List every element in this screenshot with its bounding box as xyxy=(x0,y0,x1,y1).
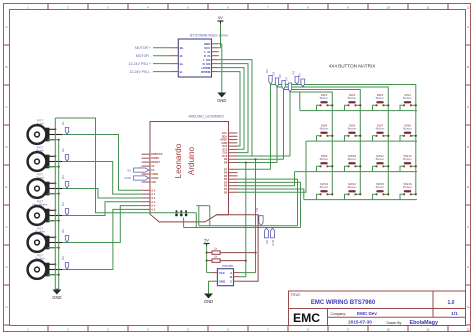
svg-text:H: H xyxy=(467,305,469,309)
svg-text:5V: 5V xyxy=(151,168,154,172)
svg-text:MOTOR -: MOTOR - xyxy=(136,54,152,58)
svg-text:Button: Button xyxy=(348,157,357,161)
svg-text:R2: R2 xyxy=(61,148,65,152)
svg-text:H: H xyxy=(5,305,7,309)
svg-text:Button: Button xyxy=(348,127,357,131)
svg-text:Drawn By:: Drawn By: xyxy=(387,321,403,325)
svg-text:EbolaMagy: EbolaMagy xyxy=(410,320,438,326)
svg-text:F: F xyxy=(467,225,469,229)
svg-text:1k: 1k xyxy=(214,254,218,258)
svg-text:12-24V PSU -: 12-24V PSU - xyxy=(129,70,151,74)
svg-text:ARDUINO_LEONARDO: ARDUINO_LEONARDO xyxy=(188,114,224,118)
svg-text:Company:: Company: xyxy=(331,312,347,316)
svg-text:RPWM: RPWM xyxy=(201,70,211,74)
svg-text:Button: Button xyxy=(376,185,385,189)
svg-text:4X4 BUTTON MATRIX: 4X4 BUTTON MATRIX xyxy=(329,64,376,69)
svg-text:12: 12 xyxy=(466,5,470,9)
svg-text:VCC: VCC xyxy=(219,271,226,275)
svg-text:R1: R1 xyxy=(292,70,296,74)
svg-text:M+: M+ xyxy=(180,46,184,50)
svg-text:GND: GND xyxy=(204,299,213,304)
svg-text:A.0: A.0 xyxy=(151,188,156,192)
svg-text:11: 11 xyxy=(426,5,429,9)
svg-text:BTS7960B Motor Driver: BTS7960B Motor Driver xyxy=(190,34,229,38)
svg-text:F: F xyxy=(6,225,8,229)
svg-text:Button: Button xyxy=(348,96,357,100)
svg-text:B+: B+ xyxy=(180,62,184,66)
svg-text:GND: GND xyxy=(52,295,61,300)
svg-text:1.0: 1.0 xyxy=(448,300,455,306)
svg-text:D8: D8 xyxy=(224,161,228,165)
svg-text:RESET: RESET xyxy=(151,160,160,164)
svg-text:Button: Button xyxy=(376,127,385,131)
svg-text:Button: Button xyxy=(320,127,329,131)
svg-text:D7: D7 xyxy=(284,76,288,80)
svg-text:GND2: GND2 xyxy=(151,176,159,180)
svg-text:B: B xyxy=(5,65,7,69)
svg-text:12-24V PSU +: 12-24V PSU + xyxy=(129,62,151,66)
svg-text:E: E xyxy=(467,185,469,189)
svg-text:A: A xyxy=(5,25,7,29)
svg-text:11: 11 xyxy=(426,327,429,331)
svg-text:MOTOR +: MOTOR + xyxy=(135,46,151,50)
svg-text:GND: GND xyxy=(219,279,227,283)
svg-text:R1: R1 xyxy=(61,121,65,125)
svg-text:Button: Button xyxy=(376,157,385,161)
svg-text:A.5: A.5 xyxy=(151,207,156,211)
svg-text:Button: Button xyxy=(348,185,357,189)
svg-text:Button: Button xyxy=(403,127,412,131)
svg-text:TITLE:: TITLE: xyxy=(291,293,301,297)
svg-text:D8: D8 xyxy=(265,240,269,244)
svg-text:VIN: VIN xyxy=(151,180,155,184)
svg-text:D10: D10 xyxy=(271,240,275,246)
svg-text:5V: 5V xyxy=(218,16,223,20)
svg-text:GND: GND xyxy=(217,98,226,103)
svg-text:R3: R3 xyxy=(61,175,65,179)
svg-text:EMC Dev: EMC Dev xyxy=(357,311,377,316)
svg-text:Button: Button xyxy=(320,157,329,161)
svg-text:Button: Button xyxy=(376,96,385,100)
svg-text:R6: R6 xyxy=(61,256,65,260)
svg-text:3V: 3V xyxy=(151,164,154,168)
svg-text:A.3: A.3 xyxy=(151,200,156,204)
svg-text:Button: Button xyxy=(320,185,329,189)
svg-text:A: A xyxy=(467,25,469,29)
svg-text:Button: Button xyxy=(403,185,412,189)
svg-text:1/1: 1/1 xyxy=(451,311,458,316)
svg-text:Button: Button xyxy=(403,96,412,100)
svg-text:1k: 1k xyxy=(214,246,218,250)
svg-text:EMC: EMC xyxy=(293,311,320,325)
svg-text:D5: D5 xyxy=(271,71,275,75)
svg-text:2015-07-30: 2015-07-30 xyxy=(348,320,372,325)
svg-text:R5: R5 xyxy=(61,229,65,233)
svg-text:D4: D4 xyxy=(265,69,269,73)
svg-text:encoder: encoder xyxy=(222,264,234,268)
svg-text:GND1: GND1 xyxy=(151,172,159,176)
svg-text:D0: D0 xyxy=(224,190,228,194)
svg-text:GND: GND xyxy=(124,176,132,180)
svg-text:Button: Button xyxy=(320,96,329,100)
svg-text:A.4: A.4 xyxy=(151,204,156,208)
svg-text:Arduino: Arduino xyxy=(187,146,196,175)
svg-text:A.1: A.1 xyxy=(151,192,156,196)
svg-text:EMC WIRING BTS7960: EMC WIRING BTS7960 xyxy=(311,300,376,306)
svg-text:B: B xyxy=(467,65,469,69)
svg-text:A.2: A.2 xyxy=(151,196,156,200)
svg-text:B-: B- xyxy=(180,70,183,74)
svg-text:5V: 5V xyxy=(204,238,209,242)
svg-text:5V: 5V xyxy=(127,168,131,172)
svg-text:10: 10 xyxy=(386,5,390,9)
svg-text:10: 10 xyxy=(386,327,390,331)
svg-text:R4: R4 xyxy=(61,202,65,206)
svg-text:D6: D6 xyxy=(278,74,282,78)
svg-text:PWRVSS: PWRVSS xyxy=(151,152,162,156)
svg-text:Leonardo: Leonardo xyxy=(174,143,183,178)
svg-text:R2: R2 xyxy=(298,73,302,77)
svg-text:M-: M- xyxy=(180,54,183,58)
svg-text:IOREF: IOREF xyxy=(151,156,159,160)
svg-text:E: E xyxy=(5,185,7,189)
svg-text:Button: Button xyxy=(403,157,412,161)
svg-text:12: 12 xyxy=(466,327,470,331)
